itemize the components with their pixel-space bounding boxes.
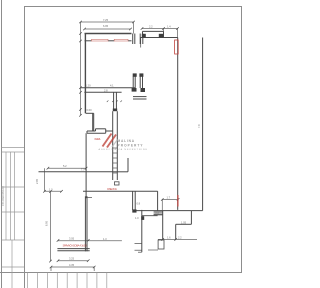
svg-text:5.2: 5.2 xyxy=(63,164,67,168)
svg-text:7.25: 7.25 xyxy=(103,18,109,22)
svg-text:7.7: 7.7 xyxy=(81,168,85,172)
svg-text:4.35: 4.35 xyxy=(69,263,75,267)
svg-text:6.95: 6.95 xyxy=(45,220,49,226)
svg-text:0.8: 0.8 xyxy=(137,201,141,205)
svg-text:2.8: 2.8 xyxy=(104,89,108,93)
svg-text:0.9: 0.9 xyxy=(155,211,159,215)
svg-text:2.2: 2.2 xyxy=(178,235,182,239)
svg-text:1.7: 1.7 xyxy=(167,196,171,200)
svg-text:KUHINJA: KUHINJA xyxy=(95,137,101,141)
svg-text:AGENCIJA ZA NEKRETNINE: AGENCIJA ZA NEKRETNINE xyxy=(99,148,148,151)
svg-text:1.0: 1.0 xyxy=(135,216,139,220)
svg-text:6.95: 6.95 xyxy=(103,24,109,28)
svg-text:3.05: 3.05 xyxy=(69,236,75,240)
svg-text:DNEVNA: DNEVNA xyxy=(107,187,117,191)
svg-text:1.4: 1.4 xyxy=(167,25,171,29)
svg-text:1.3: 1.3 xyxy=(103,237,107,241)
svg-text:1.6: 1.6 xyxy=(167,235,171,239)
svg-text:1.20: 1.20 xyxy=(86,84,92,88)
svg-text:3.25: 3.25 xyxy=(69,257,75,261)
svg-text:PROPERTY: PROPERTY xyxy=(118,143,144,147)
svg-text:SPAVAĆA SOBA 4.3x3.3: SPAVAĆA SOBA 4.3x3.3 xyxy=(63,243,88,248)
svg-text:4.1: 4.1 xyxy=(110,84,114,88)
svg-text:7.9: 7.9 xyxy=(197,124,201,128)
svg-text:1.0: 1.0 xyxy=(49,187,53,191)
svg-text:2.2: 2.2 xyxy=(149,25,153,29)
svg-text:CB.PAĐOBRAČ: CB.PAĐOBRAČ xyxy=(0,186,5,206)
svg-text:2.95: 2.95 xyxy=(35,178,39,184)
svg-text:1.05: 1.05 xyxy=(181,220,187,224)
svg-text:0.60: 0.60 xyxy=(87,108,93,112)
